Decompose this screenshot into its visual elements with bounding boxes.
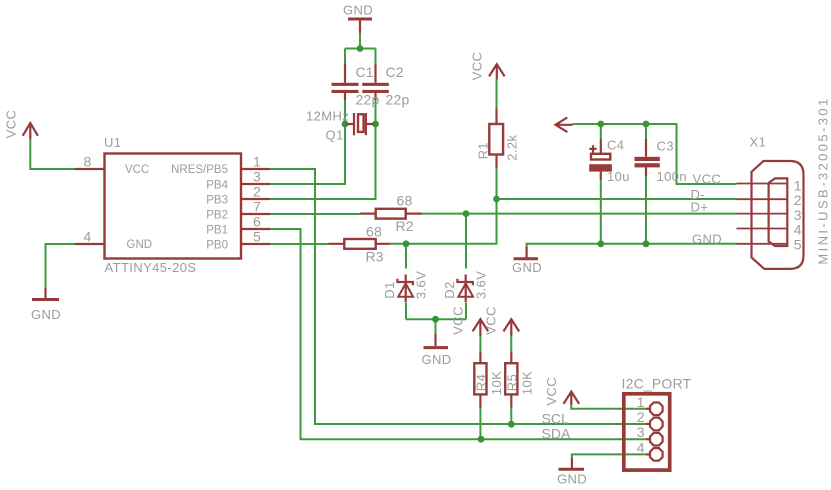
svg-text:ATTINY45-20S: ATTINY45-20S — [105, 260, 197, 275]
svg-text:R4: R4 — [474, 374, 489, 391]
svg-text:3.6V: 3.6V — [473, 271, 488, 299]
svg-text:22p: 22p — [356, 92, 380, 108]
svg-text:GND: GND — [343, 3, 373, 18]
svg-text:2: 2 — [253, 184, 261, 200]
svg-text:7: 7 — [253, 199, 261, 215]
svg-text:10K: 10K — [489, 371, 504, 395]
svg-text:100n: 100n — [657, 169, 688, 184]
svg-text:VCC: VCC — [544, 377, 559, 406]
svg-text:8: 8 — [84, 154, 92, 170]
svg-text:VCC: VCC — [4, 110, 19, 139]
svg-text:4: 4 — [637, 439, 645, 455]
svg-text:SCL: SCL — [542, 411, 569, 427]
svg-text:10u: 10u — [607, 169, 630, 184]
svg-text:D2: D2 — [442, 281, 457, 298]
svg-text:R1: R1 — [476, 142, 491, 159]
svg-text:PB1: PB1 — [206, 224, 228, 236]
svg-text:NRES/PB5: NRES/PB5 — [171, 164, 228, 176]
svg-text:C4: C4 — [607, 138, 624, 153]
svg-text:PB4: PB4 — [206, 179, 228, 191]
svg-text:VCC: VCC — [693, 172, 722, 187]
svg-text:VCC: VCC — [451, 306, 466, 335]
svg-text:D+: D+ — [691, 200, 709, 215]
svg-text:GND: GND — [512, 260, 542, 275]
svg-text:6: 6 — [253, 214, 261, 230]
svg-text:3: 3 — [253, 169, 261, 185]
svg-text:R3: R3 — [366, 249, 384, 265]
svg-text:4: 4 — [84, 229, 92, 245]
svg-text:GND: GND — [422, 352, 452, 367]
svg-text:1: 1 — [637, 394, 645, 410]
svg-text:D1: D1 — [382, 281, 397, 298]
svg-text:5: 5 — [253, 229, 261, 245]
svg-text:PB0: PB0 — [206, 239, 228, 251]
svg-text:SDA: SDA — [542, 426, 571, 442]
svg-text:68: 68 — [366, 224, 382, 240]
svg-text:C2: C2 — [386, 64, 404, 80]
svg-text:PB2: PB2 — [206, 209, 228, 221]
svg-text:MINI-USB-32005-301: MINI-USB-32005-301 — [815, 96, 830, 264]
svg-text:4: 4 — [794, 222, 802, 238]
svg-text:C1: C1 — [356, 64, 374, 80]
svg-text:2: 2 — [794, 192, 802, 208]
svg-text:GND: GND — [692, 231, 722, 246]
svg-text:Q1: Q1 — [326, 128, 344, 143]
svg-text:12MHz: 12MHz — [306, 109, 349, 124]
svg-text:X1: X1 — [750, 134, 767, 149]
svg-text:1: 1 — [253, 154, 261, 170]
svg-text:C3: C3 — [657, 139, 674, 154]
svg-text:VCC: VCC — [125, 164, 149, 176]
svg-text:2: 2 — [637, 409, 645, 425]
svg-text:R5: R5 — [504, 374, 519, 391]
svg-text:5: 5 — [794, 237, 802, 253]
svg-text:68: 68 — [397, 193, 413, 209]
svg-text:10K: 10K — [520, 371, 535, 395]
svg-text:GND: GND — [31, 307, 61, 322]
svg-text:3: 3 — [637, 424, 645, 440]
svg-text:R2: R2 — [396, 218, 414, 234]
svg-text:22p: 22p — [386, 92, 410, 108]
svg-text:VCC: VCC — [470, 52, 485, 81]
svg-text:2.2k: 2.2k — [505, 135, 520, 161]
svg-text:GND: GND — [557, 471, 587, 486]
svg-text:GND: GND — [127, 239, 153, 251]
svg-text:VCC: VCC — [484, 306, 499, 335]
svg-text:U1: U1 — [104, 135, 121, 150]
svg-text:3.6V: 3.6V — [413, 271, 428, 299]
svg-text:PB3: PB3 — [206, 194, 228, 206]
svg-text:I2C_PORT: I2C_PORT — [622, 376, 692, 392]
